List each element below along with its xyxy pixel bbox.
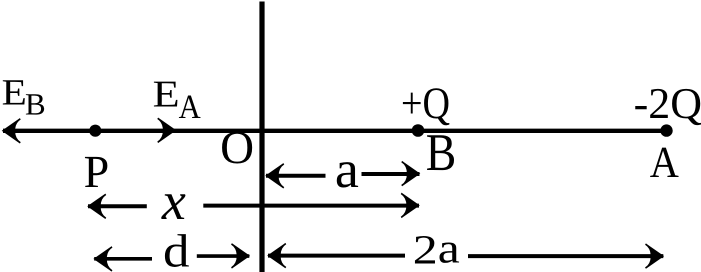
svg-text:E: E: [153, 74, 180, 116]
svg-text:A: A: [650, 137, 679, 187]
svg-text:a: a: [335, 141, 359, 199]
svg-text:-2Q: -2Q: [634, 79, 701, 128]
svg-text:A: A: [179, 89, 201, 126]
svg-text:E: E: [2, 73, 27, 114]
svg-text:+Q: +Q: [401, 78, 450, 128]
svg-text:B: B: [426, 124, 457, 182]
svg-text:B: B: [25, 87, 46, 122]
svg-text:d: d: [163, 225, 190, 272]
svg-text:O: O: [220, 122, 254, 174]
svg-text:2: 2: [413, 227, 438, 272]
svg-text:P: P: [84, 146, 110, 197]
svg-text:x: x: [161, 171, 186, 231]
svg-text:a: a: [438, 225, 460, 272]
